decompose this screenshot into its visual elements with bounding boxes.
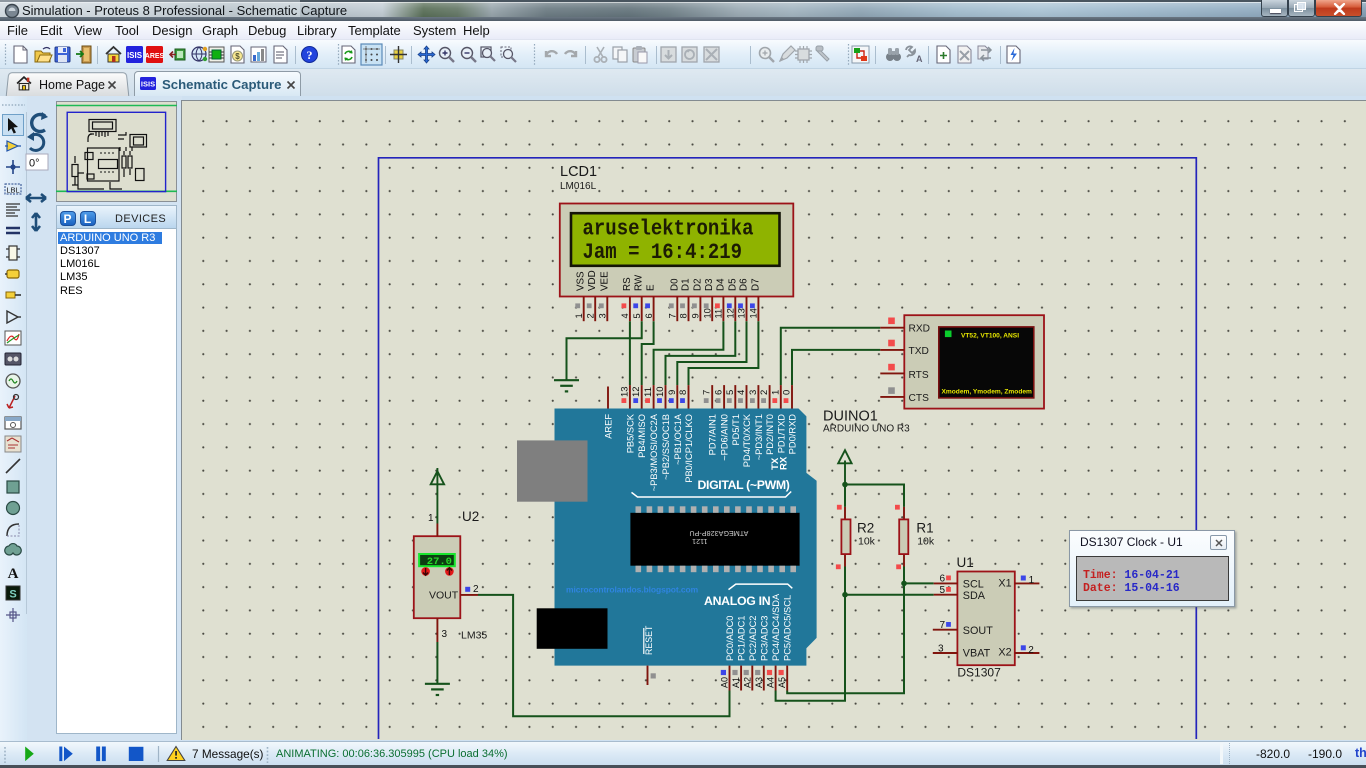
magnify edit	[760, 48, 775, 63]
node U2 label	[462, 509, 479, 524]
svg-text:0°: 0°	[29, 158, 40, 170]
editor	[181, 100, 1366, 740]
zoom in	[440, 48, 455, 63]
node R1 labels	[916, 521, 934, 548]
devices list	[56, 229, 177, 734]
Arduino top pin state squares	[622, 398, 789, 403]
electrical check	[1007, 46, 1020, 63]
junction SDA node	[842, 592, 848, 598]
LCD1 pin stubs	[584, 297, 759, 322]
ISIS	[126, 46, 143, 63]
toolbar	[0, 40, 1366, 69]
svg-text:A: A	[8, 566, 19, 582]
node LM35 value label	[461, 630, 487, 642]
wire terminal TXD to Arduino pin0	[792, 350, 880, 385]
menu bar	[0, 21, 1366, 40]
wire R2 bottom to SDA and Arduino A4	[776, 567, 934, 701]
refresh	[342, 46, 355, 63]
search binoculars	[886, 48, 901, 61]
wire LCD E to Arduino pin12	[642, 321, 654, 385]
DS1307 U1	[957, 572, 1014, 666]
U1 pin numbers	[938, 574, 1035, 656]
title bar	[0, 0, 1366, 21]
chip book	[209, 47, 224, 62]
wire U2 pin3 to ground	[436, 642, 438, 683]
wire LCD RS to Arduino pin13	[629, 321, 631, 385]
LCD1 pin numbers	[574, 308, 759, 318]
Arduino bottom pin numbers A0-A5	[720, 677, 788, 688]
terminal pin stubs	[880, 328, 904, 397]
report	[251, 47, 266, 62]
new sheet	[937, 46, 950, 63]
LM35 U2	[414, 536, 461, 618]
remove sheet	[958, 46, 971, 63]
help	[302, 47, 318, 63]
Arduino top pin numbers	[619, 386, 792, 397]
svg-text:$: $	[235, 52, 240, 61]
wire power to R2 and R1 tops	[845, 485, 904, 507]
exchange sheet	[978, 46, 991, 61]
wire autorouter	[852, 46, 869, 63]
chip config	[795, 46, 812, 63]
terminal virtual instrument	[904, 315, 1044, 408]
Arduino top pin stubs	[608, 385, 792, 408]
wire R1 bottom to SCL and Arduino A5	[787, 567, 934, 694]
sheet border	[379, 158, 1197, 739]
export box	[170, 49, 185, 60]
U1 pin stubs	[933, 583, 1040, 653]
power terminal above U2	[431, 468, 444, 524]
svg-text:A: A	[916, 54, 923, 64]
left sidebar + panel	[0, 96, 27, 741]
property tool	[906, 46, 923, 64]
redo	[565, 51, 576, 56]
ground below U2	[425, 684, 450, 695]
wire LCD D6 to Arduino pin9	[677, 321, 746, 385]
junction power node	[842, 482, 848, 488]
grid toggle (active)	[361, 44, 382, 65]
node DS1307 value label	[957, 666, 1001, 680]
node DUINO1 labels	[823, 409, 910, 435]
ARES	[145, 46, 165, 63]
devices header	[56, 205, 177, 229]
wire LCD RW to ground	[567, 321, 642, 379]
Arduino bottom pin state squares	[651, 670, 784, 679]
Arduino bottom pin stubs A0-A5 and RESET	[648, 666, 788, 691]
pan	[418, 46, 435, 63]
schematic tab (active)	[134, 71, 301, 96]
U1 pin state squares	[946, 576, 1026, 651]
home	[106, 47, 121, 62]
block move	[682, 47, 697, 62]
tab bar	[0, 69, 1366, 96]
open	[35, 48, 52, 63]
svg-text:ISIS: ISIS	[127, 51, 143, 60]
rotate controls	[23, 108, 57, 238]
origin	[390, 46, 407, 63]
Arduino DUINO1 board	[517, 409, 817, 666]
svg-text:?: ?	[307, 48, 313, 62]
U2 pin stubs	[437, 524, 478, 643]
globe net	[192, 47, 207, 61]
copy	[613, 47, 627, 62]
resistor R1	[895, 505, 908, 569]
U2 pin numbers	[428, 513, 479, 640]
LCD1 pin state squares	[575, 303, 755, 308]
svg-text:ISIS: ISIS	[141, 80, 155, 89]
undo	[546, 51, 557, 56]
zoom out	[462, 48, 477, 63]
save	[55, 47, 70, 62]
svg-text:ARES: ARES	[145, 53, 165, 60]
goto pencil	[780, 46, 795, 61]
home tab	[5, 72, 129, 96]
node LCD1 labels	[560, 164, 597, 192]
wire U2 VOUT to Arduino A0	[478, 595, 730, 716]
zoom all	[501, 47, 516, 62]
wire LCD D4 to Arduino pin11	[654, 321, 724, 385]
junction SCL node	[901, 581, 907, 587]
DS1307 clock popup window	[1069, 530, 1235, 607]
text doc	[274, 46, 287, 63]
tools hammer	[816, 46, 829, 61]
LCD display LCD1	[560, 204, 794, 297]
ground near LCD	[554, 380, 579, 391]
node U1 label	[957, 555, 974, 570]
svg-text:S: S	[9, 588, 16, 600]
zoom region	[481, 47, 495, 61]
bom $	[231, 46, 244, 63]
terminal pin state squares	[888, 318, 895, 394]
U2 pin2 state square	[465, 587, 470, 592]
import door	[76, 46, 91, 63]
wire terminal RXD to Arduino pin1	[781, 328, 881, 385]
paste	[633, 46, 647, 63]
node R2 labels	[857, 521, 876, 548]
svg-text:LBL: LBL	[6, 185, 19, 194]
window buttons	[1261, 0, 1288, 17]
cut	[594, 47, 606, 62]
block copy	[661, 47, 676, 62]
power terminal above R2	[838, 450, 851, 484]
block delete	[704, 47, 719, 62]
resistor R2	[836, 505, 851, 569]
new doc	[14, 46, 27, 63]
wire LCD D7 to Arduino pin8	[689, 321, 759, 385]
status bar	[0, 741, 1366, 768]
wire LCD D5 to Arduino pin10	[666, 321, 736, 385]
overview pane	[56, 101, 177, 202]
